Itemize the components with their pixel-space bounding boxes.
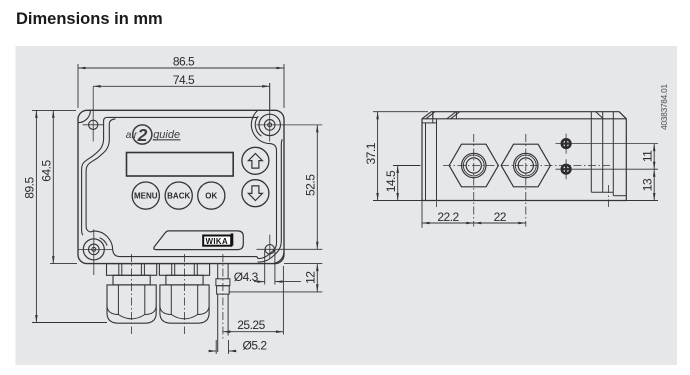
svg-text:52.5: 52.5 — [303, 174, 317, 196]
svg-text:Ø4.3: Ø4.3 — [234, 270, 259, 284]
svg-text:64.5: 64.5 — [40, 159, 54, 181]
svg-text:89.5: 89.5 — [23, 176, 37, 198]
svg-text:25.25: 25.25 — [237, 318, 265, 332]
svg-text:12: 12 — [303, 271, 317, 284]
svg-text:74.5: 74.5 — [173, 73, 195, 87]
svg-text:Ø5.2: Ø5.2 — [242, 338, 267, 352]
svg-text:Dimensions in mm: Dimensions in mm — [16, 10, 163, 28]
svg-text:14.5: 14.5 — [384, 170, 398, 192]
svg-text:40383784.01: 40383784.01 — [660, 84, 669, 130]
svg-text:OK: OK — [205, 191, 217, 200]
svg-text:BACK: BACK — [167, 191, 190, 200]
svg-text:22: 22 — [494, 210, 507, 224]
svg-text:2: 2 — [137, 125, 148, 145]
svg-text:guide: guide — [153, 129, 180, 141]
svg-text:MENU: MENU — [134, 191, 158, 200]
svg-text:air: air — [126, 130, 138, 141]
svg-text:WIKA: WIKA — [206, 237, 228, 246]
svg-text:86.5: 86.5 — [173, 55, 195, 69]
svg-text:11: 11 — [641, 150, 655, 162]
svg-text:13: 13 — [641, 178, 655, 191]
svg-text:22.2: 22.2 — [437, 210, 459, 224]
svg-text:37.1: 37.1 — [364, 142, 378, 164]
